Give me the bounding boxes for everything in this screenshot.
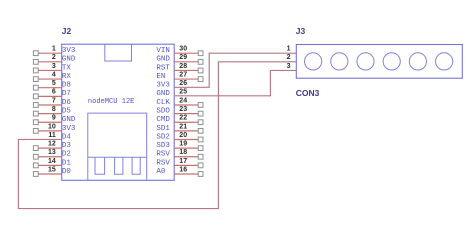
J2 pin 20 (SD2) right — [156, 132, 203, 142]
J3 circle pin 6 — [436, 53, 453, 70]
J2 pin 6 (D7) left — [33, 89, 71, 99]
nodeMCU 12E body outline — [62, 44, 175, 180]
J3 circle pin 4 — [383, 53, 400, 70]
svg-text:3: 3 — [52, 63, 56, 70]
svg-text:SD2: SD2 — [156, 133, 170, 141]
svg-text:CON3: CON3 — [296, 88, 320, 98]
svg-text:17: 17 — [179, 158, 187, 165]
J2 pin 5 (D8) left — [33, 80, 71, 90]
svg-text:8: 8 — [52, 106, 56, 113]
J2 pin 27 (EN) right — [156, 71, 203, 81]
svg-text:D6: D6 — [62, 99, 72, 107]
svg-text:RST: RST — [156, 64, 170, 72]
svg-text:14: 14 — [48, 158, 56, 165]
svg-text:3: 3 — [287, 63, 291, 70]
svg-text:5: 5 — [52, 80, 56, 87]
wire J2 pin 11 (D4) to J3 pin 2 — [18, 62, 296, 209]
J2 pin 25 (GND) right — [156, 89, 187, 99]
J2 pin 4 (RX) left — [33, 71, 71, 81]
svg-text:3V3: 3V3 — [156, 82, 170, 90]
J2 pin 2 (GND) left — [33, 54, 76, 64]
J2 pin 12 (D3) left — [33, 141, 71, 151]
J2 pin 22 (CMD) right — [156, 115, 203, 125]
svg-text:21: 21 — [179, 123, 187, 130]
J2 pin 28 (RST) right — [156, 63, 203, 73]
J2 pin 11 (D4) left — [48, 132, 71, 142]
J2 pin 14 (D1) left — [33, 158, 71, 168]
svg-text:D4: D4 — [62, 133, 72, 141]
svg-text:26: 26 — [179, 80, 187, 87]
svg-text:SDO: SDO — [156, 108, 170, 116]
svg-text:RX: RX — [62, 73, 72, 81]
J2 pin 17 (RSV) right — [156, 158, 203, 168]
svg-text:SD3: SD3 — [156, 142, 170, 150]
J2 pin 24 (CLK) right — [156, 97, 203, 107]
J2 pin 8 (D5) left — [33, 106, 71, 116]
svg-text:19: 19 — [179, 141, 187, 148]
svg-text:J3: J3 — [296, 26, 306, 36]
J2 pin 15 (D0) left — [33, 166, 71, 176]
svg-text:nodeMCU 12E: nodeMCU 12E — [88, 98, 135, 106]
svg-text:1: 1 — [52, 46, 56, 53]
J2 pin 7 (D6) left — [33, 97, 71, 107]
svg-text:13: 13 — [48, 149, 56, 156]
svg-text:D3: D3 — [62, 142, 72, 150]
svg-text:29: 29 — [179, 54, 187, 61]
wire J2 pin 25 (GND) to J3 pin 3 — [174, 70, 296, 95]
svg-text:2: 2 — [287, 54, 291, 61]
svg-text:3V3: 3V3 — [62, 47, 76, 55]
svg-text:2: 2 — [52, 54, 56, 61]
svg-text:27: 27 — [179, 71, 187, 78]
J2 pin 30 (VIN) right — [156, 46, 203, 56]
J2 pin 23 (SDO) right — [156, 106, 203, 116]
svg-text:30: 30 — [179, 46, 187, 53]
svg-text:GND: GND — [156, 56, 170, 64]
svg-text:RSV: RSV — [156, 151, 170, 159]
svg-text:GND: GND — [62, 56, 76, 64]
J2 pin 13 (D2) left — [33, 149, 71, 159]
J2 pin 1 (3V3) left — [33, 46, 76, 56]
shield pin tab 1 — [95, 157, 105, 174]
svg-text:1: 1 — [287, 46, 291, 53]
svg-text:12: 12 — [48, 141, 56, 148]
USB notch at top of module — [105, 44, 132, 61]
svg-text:D1: D1 — [62, 159, 72, 167]
svg-text:16: 16 — [179, 166, 187, 173]
J3 circle pin 1 — [305, 53, 322, 70]
svg-text:GND: GND — [62, 116, 76, 124]
J2 pin 19 (SD3) right — [156, 141, 203, 151]
svg-text:EN: EN — [156, 73, 165, 81]
svg-text:11: 11 — [48, 132, 56, 139]
J2 pin 9 (GND) left — [33, 115, 76, 125]
svg-text:20: 20 — [179, 132, 187, 139]
svg-text:CLK: CLK — [156, 99, 170, 107]
svg-text:TX: TX — [62, 64, 72, 72]
J2 pin 26 (3V3) right — [156, 80, 187, 90]
svg-text:CMD: CMD — [156, 116, 170, 124]
svg-text:A0: A0 — [156, 168, 166, 176]
svg-text:D7: D7 — [62, 90, 71, 98]
wire J2 pin 26 (3V3) to J3 pin 1 — [174, 53, 296, 87]
J3 circle pin 3 — [357, 53, 374, 70]
J2 pin 10 (3V3) left — [33, 123, 76, 133]
J2 pin 18 (RSV) right — [156, 149, 203, 159]
svg-text:4: 4 — [52, 71, 56, 78]
shield pin tab 2 — [115, 157, 123, 174]
metal shield inner rectangle — [88, 113, 147, 180]
svg-text:VIN: VIN — [156, 47, 170, 55]
J2 pin 16 (A0) right — [156, 166, 203, 176]
J3 circle pin 2 — [331, 53, 348, 70]
svg-text:15: 15 — [48, 166, 56, 173]
J3 connector body — [296, 45, 462, 79]
svg-text:24: 24 — [179, 97, 187, 104]
svg-text:D8: D8 — [62, 82, 71, 90]
svg-text:GND: GND — [156, 90, 170, 98]
J2 pin 29 (GND) right — [156, 54, 203, 64]
svg-text:J2: J2 — [62, 26, 72, 36]
svg-text:28: 28 — [179, 63, 187, 70]
svg-text:18: 18 — [179, 149, 187, 156]
svg-text:23: 23 — [179, 106, 187, 113]
svg-text:22: 22 — [179, 115, 187, 122]
svg-text:9: 9 — [52, 115, 56, 122]
shield dividing line — [88, 156, 147, 158]
shield pin tab 3 — [132, 157, 140, 174]
svg-text:25: 25 — [179, 89, 187, 96]
J2 pin 3 (TX) left — [33, 63, 71, 73]
svg-text:3V3: 3V3 — [62, 125, 76, 133]
svg-text:D2: D2 — [62, 151, 71, 159]
svg-text:7: 7 — [52, 97, 56, 104]
J3 circle pin 5 — [409, 53, 426, 70]
svg-text:6: 6 — [52, 89, 56, 96]
svg-text:SD1: SD1 — [156, 125, 170, 133]
J2 pin 21 (SD1) right — [156, 123, 203, 133]
svg-text:RSV: RSV — [156, 159, 170, 167]
svg-text:D5: D5 — [62, 108, 72, 116]
svg-text:10: 10 — [48, 123, 56, 130]
svg-text:D0: D0 — [62, 168, 72, 176]
